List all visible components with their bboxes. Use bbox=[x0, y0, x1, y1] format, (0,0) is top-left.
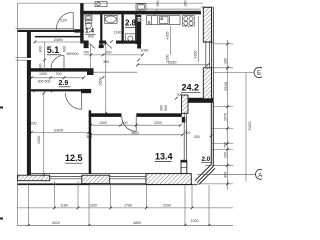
svg-text:700: 700 bbox=[83, 51, 89, 55]
svg-text:700: 700 bbox=[177, 93, 183, 97]
svg-text:280: 280 bbox=[184, 1, 188, 7]
svg-text:200: 200 bbox=[106, 51, 112, 55]
svg-text:1000: 1000 bbox=[39, 72, 47, 76]
svg-text:1500: 1500 bbox=[99, 121, 107, 125]
svg-text:750: 750 bbox=[224, 142, 228, 148]
svg-text:200: 200 bbox=[31, 122, 37, 126]
svg-text:13.4: 13.4 bbox=[155, 152, 173, 162]
svg-text:24.2: 24.2 bbox=[182, 83, 200, 93]
svg-text:5.1: 5.1 bbox=[47, 45, 60, 55]
svg-text:300: 300 bbox=[194, 135, 200, 139]
svg-text:2900: 2900 bbox=[54, 128, 64, 133]
svg-text:А: А bbox=[258, 173, 262, 179]
svg-text:500: 500 bbox=[38, 64, 42, 70]
svg-text:300: 300 bbox=[103, 60, 109, 64]
svg-text:2.9: 2.9 bbox=[59, 80, 69, 87]
svg-text:900: 900 bbox=[164, 105, 168, 111]
svg-text:12.5: 12.5 bbox=[65, 153, 83, 163]
svg-text:4300: 4300 bbox=[37, 136, 41, 144]
svg-text:180: 180 bbox=[224, 58, 228, 64]
svg-text:1.4: 1.4 bbox=[85, 27, 94, 34]
svg-text:800: 800 bbox=[224, 172, 228, 178]
svg-text:1180: 1180 bbox=[114, 31, 122, 35]
svg-text:300: 300 bbox=[86, 135, 92, 139]
svg-text:1780: 1780 bbox=[124, 204, 132, 208]
svg-text:390: 390 bbox=[156, 1, 160, 7]
svg-text:2490: 2490 bbox=[54, 37, 64, 42]
svg-text:4600: 4600 bbox=[131, 131, 139, 135]
svg-text:1180: 1180 bbox=[60, 204, 68, 208]
svg-text:220: 220 bbox=[60, 18, 67, 23]
svg-text:1200: 1200 bbox=[191, 219, 199, 223]
svg-text:300: 300 bbox=[38, 80, 44, 84]
svg-text:5420: 5420 bbox=[247, 121, 252, 131]
svg-text:1920: 1920 bbox=[89, 204, 97, 208]
svg-text:2200: 2200 bbox=[154, 121, 162, 125]
svg-text:Б: Б bbox=[257, 71, 261, 77]
svg-text:2.0: 2.0 bbox=[202, 156, 211, 163]
svg-text:700: 700 bbox=[56, 72, 62, 76]
svg-text:3020: 3020 bbox=[52, 221, 60, 225]
svg-text:300: 300 bbox=[224, 152, 228, 158]
svg-text:600: 600 bbox=[88, 35, 94, 39]
svg-text:1670: 1670 bbox=[224, 113, 228, 121]
svg-text:4800: 4800 bbox=[133, 221, 141, 225]
svg-text:900: 900 bbox=[122, 121, 128, 125]
svg-text:4265: 4265 bbox=[166, 32, 170, 40]
svg-text:2250: 2250 bbox=[166, 55, 170, 63]
svg-text:500: 500 bbox=[45, 80, 51, 84]
svg-text:1050: 1050 bbox=[141, 49, 149, 53]
svg-text:800: 800 bbox=[38, 46, 42, 52]
svg-text:2290: 2290 bbox=[163, 204, 171, 208]
svg-text:700: 700 bbox=[185, 131, 191, 135]
svg-text:4260: 4260 bbox=[194, 51, 198, 59]
svg-text:2540: 2540 bbox=[223, 81, 228, 91]
svg-text:2.8: 2.8 bbox=[125, 19, 137, 28]
svg-text:3500: 3500 bbox=[99, 78, 103, 86]
svg-text:300: 300 bbox=[73, 52, 79, 56]
